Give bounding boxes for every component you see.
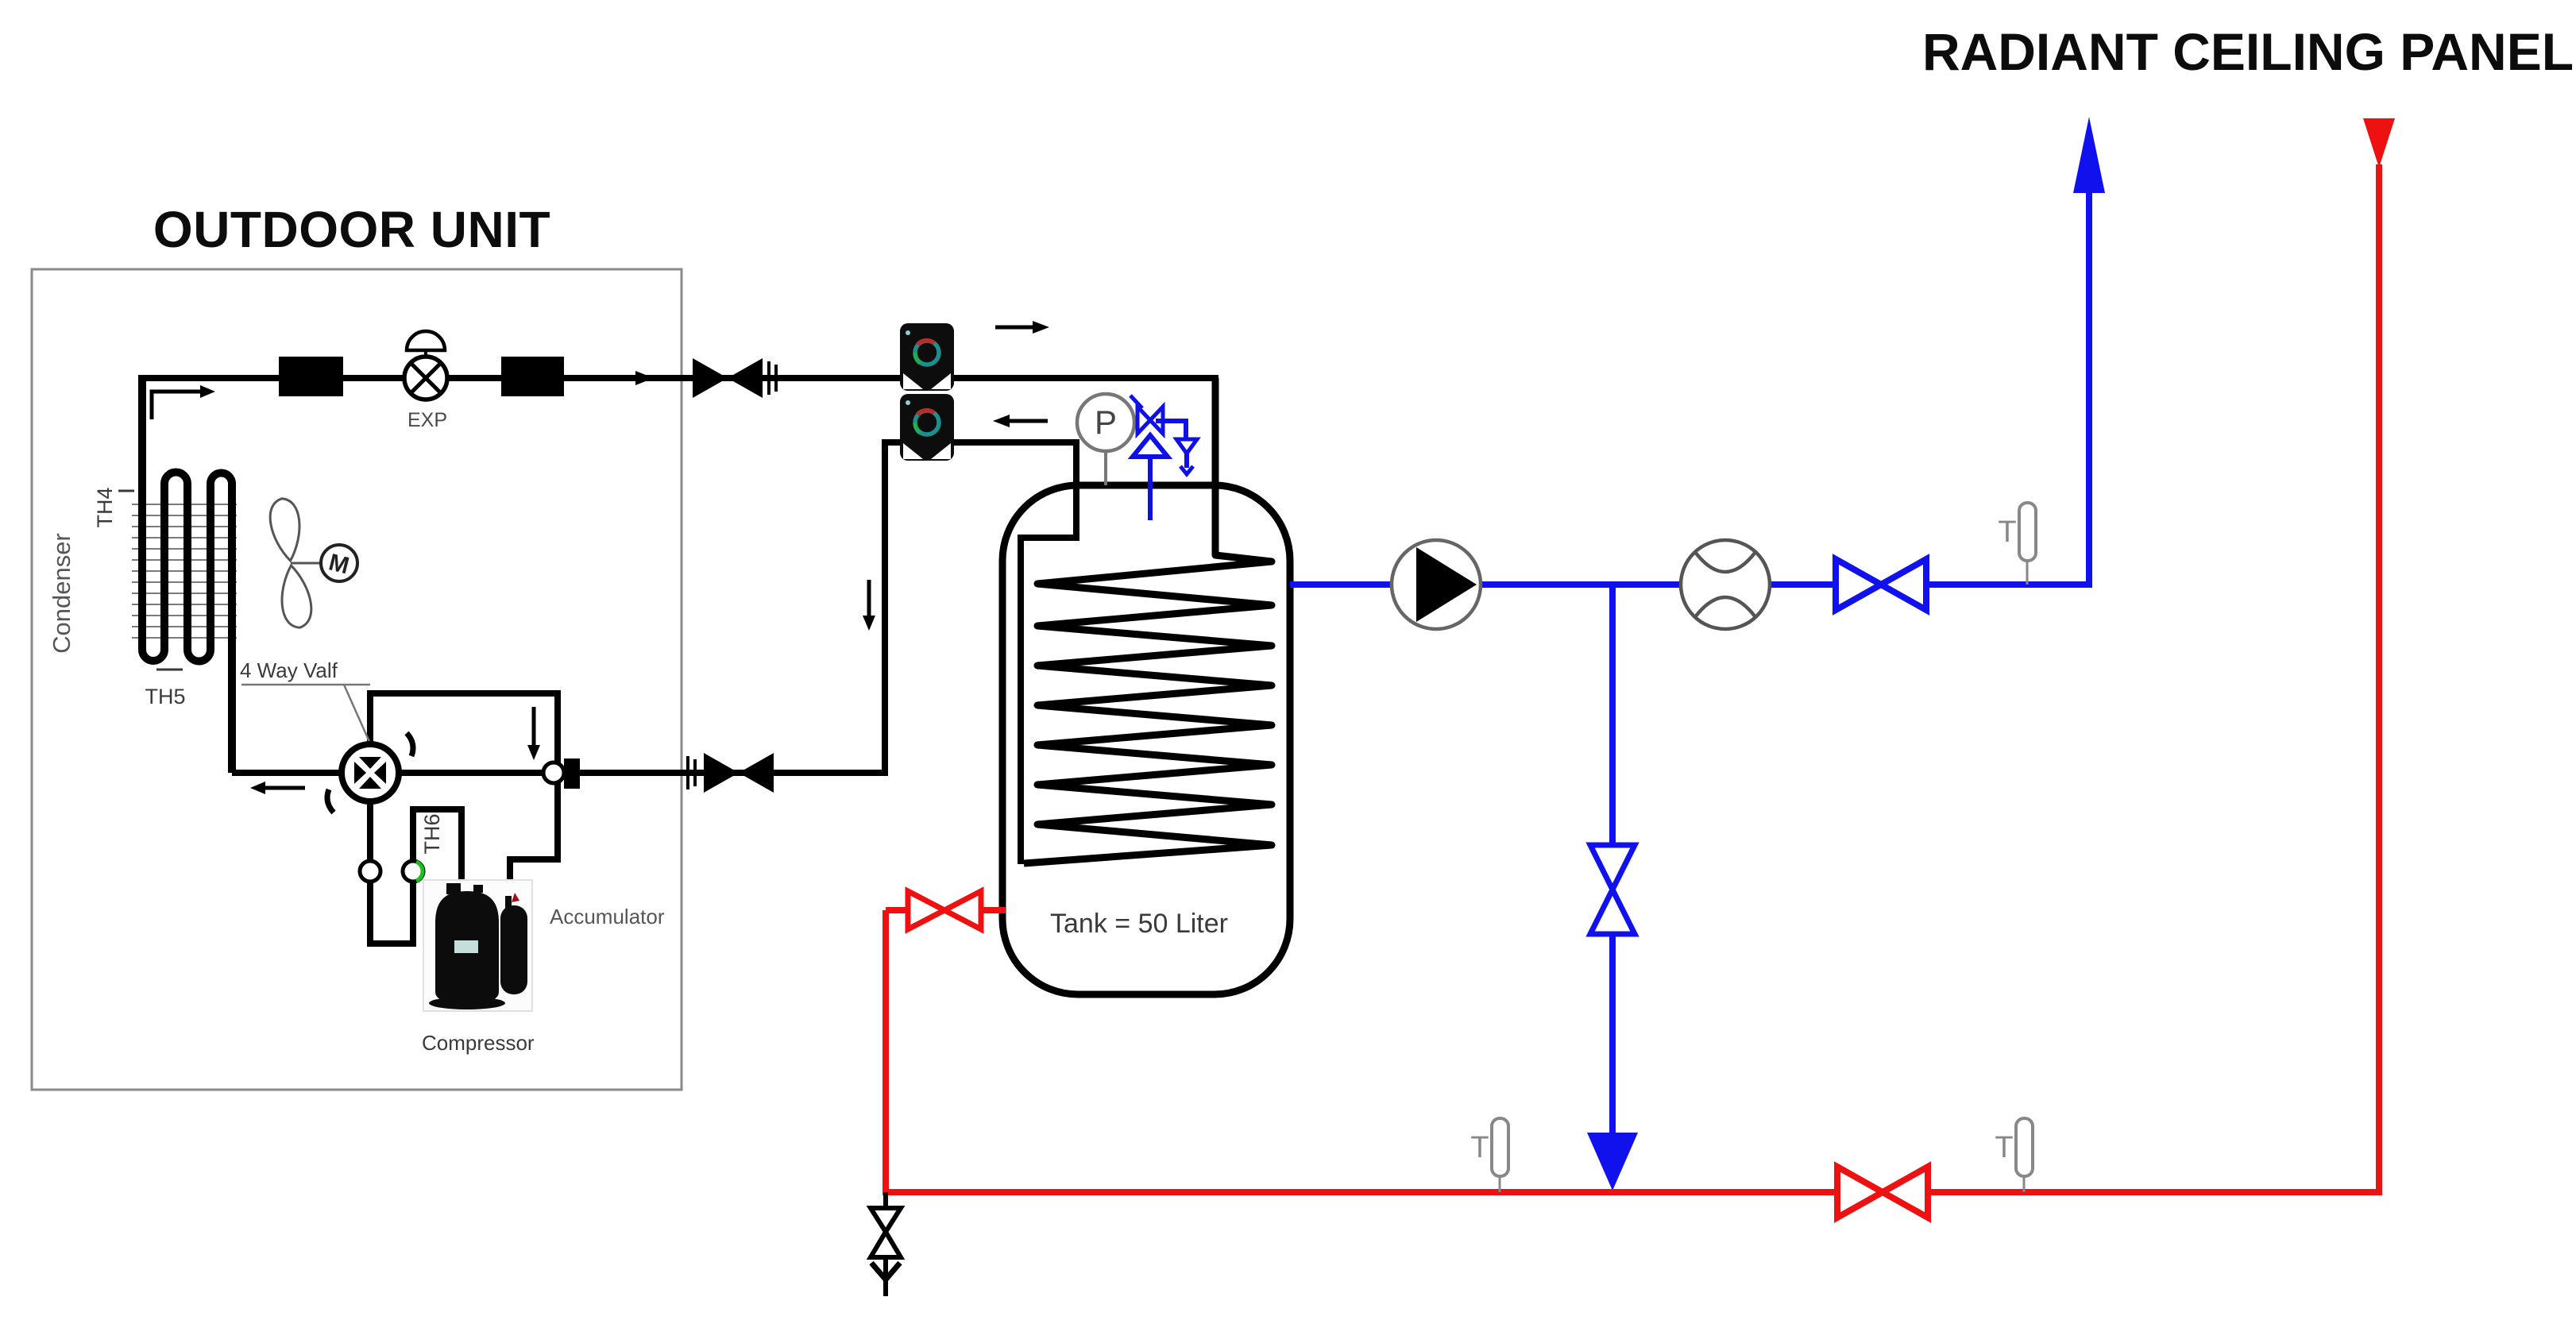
compressor body	[435, 891, 499, 1002]
outdoor unit enclosure box	[32, 269, 682, 1090]
svg-text:RADIANT CEILING PANEL: RADIANT CEILING PANEL	[1922, 22, 2574, 81]
wire: compressor suction loop	[370, 773, 462, 944]
blue supply arrow to panel	[2073, 117, 2105, 193]
filter drier 1	[279, 357, 343, 396]
condenser serpentine coil	[142, 375, 232, 773]
wire: top refrigerant pipe	[139, 378, 1215, 548]
service valve on top pipe	[693, 358, 728, 398]
4-way valve	[342, 744, 399, 801]
red return riser	[886, 164, 2379, 1192]
flow arrow L-shaped at condenser top	[152, 392, 200, 419]
tank shell	[1002, 485, 1290, 994]
svg-text:Compressor: Compressor	[422, 1031, 535, 1055]
svg-text:Condenser: Condenser	[48, 533, 75, 654]
junction fitting square	[564, 759, 580, 789]
wire: 4-way valve bridge loop	[370, 693, 558, 773]
sensor display box lower	[900, 394, 954, 461]
4-way valve switch flick bottom-left	[327, 789, 334, 813]
small flow arrow on top pipe	[635, 371, 654, 385]
compressor photo backdrop	[423, 880, 532, 1011]
service valve on lower pipe	[704, 753, 739, 793]
svg-text:4 Way Valf: 4 Way Valf	[240, 658, 338, 682]
wire: lower refrigerant pipe at y973	[232, 442, 1076, 866]
red return arrow from panel	[2363, 118, 2395, 168]
red shutoff valve on return	[1837, 1167, 1883, 1218]
blue shutoff valve	[1836, 559, 1881, 610]
filter drier 2	[501, 357, 564, 396]
svg-text:T: T	[1470, 1131, 1489, 1164]
fan motor M	[321, 545, 357, 581]
safety valve group (blue)	[1130, 396, 1197, 520]
svg-text:T: T	[1998, 515, 2016, 549]
pressure gauge P	[1077, 394, 1134, 451]
flow arrow left (inside unit)	[265, 786, 305, 790]
svg-text:EXP: EXP	[407, 409, 447, 431]
flow arrow left below lower pipe	[1010, 419, 1048, 423]
sensor circle on compressor loop left	[360, 861, 380, 882]
EXP valve body	[404, 357, 447, 400]
svg-text:T: T	[1995, 1131, 2013, 1164]
svg-text:P: P	[1095, 403, 1117, 441]
tank inner down pipe	[1021, 488, 1076, 864]
thermometer on return right	[2016, 1118, 2033, 1176]
red valve at tank inlet	[886, 907, 1006, 913]
condenser fins	[132, 504, 237, 638]
4-way valve switch flick top-right	[407, 733, 413, 756]
fan blades	[268, 496, 315, 629]
junction node circle	[543, 762, 564, 783]
svg-text:Accumulator: Accumulator	[550, 905, 665, 928]
bypass balancing valve	[1590, 845, 1635, 890]
svg-text:Tank = 50 Liter: Tank = 50 Liter	[1050, 909, 1228, 939]
drain valve	[871, 1192, 901, 1296]
sensor display box upper	[900, 323, 954, 391]
flow arrow right above top pipe	[995, 326, 1033, 330]
tank internal heat-exchanger coil	[1024, 378, 1272, 863]
blue supply pipe	[1290, 191, 2089, 585]
flow arrow down on pipe x1114	[867, 580, 871, 616]
fan shaft	[291, 562, 321, 565]
svg-text:OUTDOOR UNIT: OUTDOOR UNIT	[153, 201, 550, 258]
thermometer on supply	[2019, 503, 2036, 561]
bypass line (blue) down	[1609, 585, 1616, 1133]
svg-text:TH5: TH5	[145, 685, 185, 708]
pump	[1392, 540, 1481, 629]
svg-text:TH4: TH4	[93, 487, 117, 527]
flow meter	[1681, 540, 1770, 629]
flow arrow down on bridge	[532, 707, 536, 745]
svg-text:TH6: TH6	[420, 813, 444, 854]
bypass arrow into return	[1587, 1133, 1638, 1191]
accumulator body	[500, 905, 527, 994]
sensor circle on compressor loop right	[403, 861, 423, 882]
wire: accumulator line	[510, 773, 558, 880]
thermometer on return left	[1492, 1118, 1508, 1176]
EXP valve dome	[407, 331, 445, 350]
